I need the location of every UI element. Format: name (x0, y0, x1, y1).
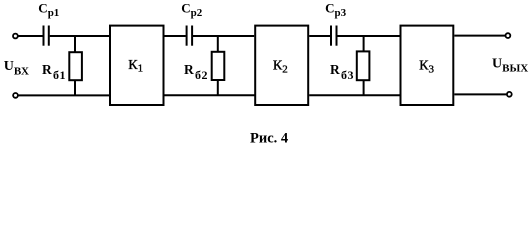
wire K1 to Cp2 (165, 35, 186, 37)
wire Cp3 to K3 (337, 35, 399, 37)
wire bottom rail K1 to K2 (165, 94, 256, 96)
capacitor Cp2 (187, 26, 193, 46)
amplifier block K2 (255, 26, 308, 105)
amplifier block K3 (401, 26, 454, 105)
capacitor Cp3 (331, 26, 337, 46)
input terminal top (Uвх +) (13, 34, 18, 39)
wire Cp2 to K2 (193, 35, 254, 37)
wire R3 top lead (363, 36, 365, 52)
resistor Rб2 (212, 52, 225, 80)
input terminal bottom (13, 93, 18, 98)
output terminal bottom (507, 92, 512, 97)
wire R2 bottom lead (217, 80, 219, 95)
amplifier block K1 (110, 26, 164, 105)
wire R1 bottom lead (74, 80, 76, 95)
wire input top to Cp1 (18, 35, 42, 37)
resistor Rб3 (357, 51, 370, 80)
wire bottom rail K3 to output (454, 93, 506, 95)
wire R1 top lead (74, 36, 76, 53)
resistor Rб1 (69, 52, 82, 80)
wire R2 top lead (217, 36, 219, 52)
wire R3 bottom lead (363, 80, 365, 95)
wire Cp1 to K1 (50, 35, 109, 37)
wire K2 to Cp3 (309, 35, 330, 37)
output terminal top (Uвых) (506, 33, 511, 38)
capacitor Cp1 (44, 26, 49, 46)
wire bottom rail input to K1 (18, 94, 110, 96)
svg-text:Рис. 4: Рис. 4 (250, 130, 288, 146)
wire K3 to output top (454, 35, 505, 37)
wire bottom rail K2 to K3 (309, 94, 400, 96)
